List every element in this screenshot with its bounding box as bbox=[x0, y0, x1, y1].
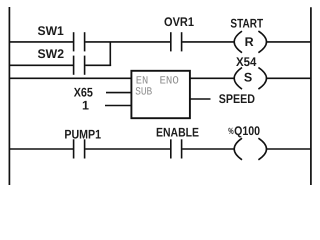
contact SW2 bbox=[74, 56, 85, 75]
svg-text:%: % bbox=[228, 126, 233, 136]
label ENABLE bbox=[156, 126, 199, 140]
svg-text:START: START bbox=[230, 16, 263, 30]
coil %Q100 bbox=[234, 138, 266, 160]
label START bbox=[230, 16, 263, 30]
coil X54 (S) bbox=[234, 68, 266, 90]
contact ENABLE bbox=[171, 139, 182, 158]
label X65 bbox=[74, 86, 93, 100]
wire rung2 left rail to SW2 bbox=[9, 64, 73, 66]
svg-text:S: S bbox=[244, 71, 252, 85]
label %Q100 bbox=[228, 124, 260, 138]
wire rung3 left rail to PUMP1 bbox=[9, 148, 73, 150]
label SPEED bbox=[219, 92, 255, 106]
svg-text:Q100: Q100 bbox=[234, 124, 260, 138]
svg-text:1: 1 bbox=[82, 98, 89, 112]
wire rung1 left rail to SW1 bbox=[9, 41, 73, 43]
wire coil X54 to right rail bbox=[266, 77, 311, 79]
wire SPEED output stub bbox=[190, 98, 211, 100]
coil START (R) bbox=[234, 31, 266, 53]
svg-text:SW1: SW1 bbox=[38, 24, 64, 38]
svg-text:R: R bbox=[245, 35, 254, 49]
label constant 1 bbox=[82, 98, 89, 112]
label X54 bbox=[236, 55, 256, 69]
wire EN input from left rail to SUB block bbox=[9, 77, 132, 79]
svg-text:EN: EN bbox=[136, 75, 149, 87]
label OVR1 bbox=[164, 15, 194, 29]
right power rail bbox=[310, 7, 312, 185]
function block SUB bbox=[131, 71, 190, 118]
svg-text:ENABLE: ENABLE bbox=[156, 126, 199, 140]
wire rung2 SW2 to branch joint bbox=[85, 64, 111, 66]
wire rung1 SW1 to OVR1 bbox=[85, 41, 170, 43]
wire rung3 PUMP1 to ENABLE bbox=[85, 148, 170, 150]
svg-text:SUB: SUB bbox=[135, 87, 152, 99]
label SW1 bbox=[38, 24, 64, 38]
label SW2 bbox=[38, 47, 65, 61]
wire X65 input stub bbox=[106, 92, 132, 94]
left power rail bbox=[8, 7, 10, 185]
svg-text:SW2: SW2 bbox=[38, 47, 65, 61]
wire rung3 coil to right rail bbox=[266, 148, 311, 150]
contact PUMP1 bbox=[74, 139, 85, 158]
wire rung3 ENABLE to coil bbox=[182, 148, 235, 150]
wire rung1 coil to right rail bbox=[266, 41, 311, 43]
svg-text:OVR1: OVR1 bbox=[164, 15, 194, 29]
branch vertical wire joining rung2 to rung1 bbox=[109, 42, 111, 66]
wire constant-1 input stub bbox=[105, 105, 132, 107]
wire ENO output to coil X54 bbox=[190, 77, 235, 79]
label PUMP1 bbox=[64, 128, 101, 142]
contact OVR1 bbox=[171, 32, 182, 51]
wire rung1 OVR1 to coil START bbox=[182, 41, 235, 43]
svg-text:X54: X54 bbox=[236, 55, 256, 69]
svg-text:PUMP1: PUMP1 bbox=[64, 128, 101, 142]
contact SW1 bbox=[74, 32, 85, 51]
svg-text:SPEED: SPEED bbox=[219, 92, 255, 106]
svg-text:ENO: ENO bbox=[160, 75, 180, 87]
